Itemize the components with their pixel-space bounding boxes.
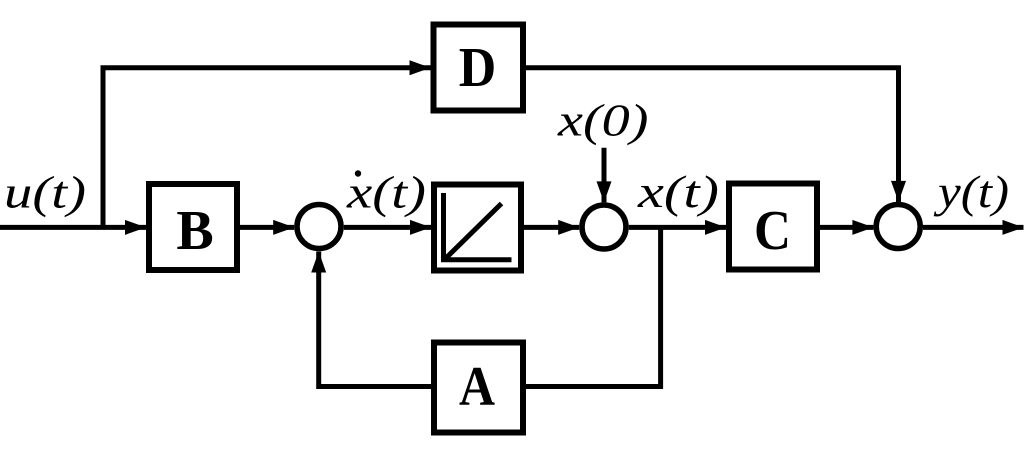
arrowhead into junction 2	[558, 220, 579, 235]
wire: junction 2 to block C	[629, 225, 726, 230]
wire: junction 1 to integrator	[344, 225, 431, 230]
arrowhead into B	[125, 220, 146, 235]
wire: branch up from input to D	[103, 68, 431, 229]
wire: integrator to summing junction 2	[524, 225, 580, 230]
arrowhead into integrator	[410, 220, 431, 235]
integrator ramp diagonal	[446, 204, 502, 259]
block A	[434, 343, 523, 433]
output summing junction	[876, 205, 920, 249]
block C	[729, 184, 817, 270]
wire: output y(t)	[923, 225, 1024, 230]
svg-text:y(t): y(t)	[934, 166, 1009, 217]
output arrowhead	[1003, 220, 1024, 235]
integrator axes: vertical	[441, 193, 446, 260]
svg-text:D: D	[459, 37, 497, 99]
block B	[149, 184, 237, 270]
wire: feedback branch down from x(t) node through A	[526, 227, 661, 386]
block D	[434, 25, 524, 111]
wire: A output left and up to junction 1	[319, 252, 431, 387]
svg-text:x(0): x(0)	[557, 95, 649, 146]
wire: input u(t) to block B	[0, 225, 146, 230]
wire: C to output junction	[820, 225, 873, 230]
arrowhead into output junction	[852, 220, 873, 235]
arrowhead into C	[705, 220, 726, 235]
dot above x	[355, 170, 361, 176]
summing junction 1	[297, 205, 341, 249]
wire: B to summing junction 1	[240, 225, 294, 230]
svg-text:A: A	[459, 356, 495, 418]
wire: x(0) down into junction 2	[602, 148, 607, 203]
integrator axes: horizontal	[441, 257, 512, 262]
arrowhead into junction 1	[273, 220, 294, 235]
svg-text:x(t): x(t)	[637, 166, 719, 217]
arrowhead down into output junction	[891, 181, 906, 202]
svg-text:C: C	[754, 200, 791, 262]
arrowhead up into junction 1	[311, 252, 326, 273]
svg-text:B: B	[176, 200, 213, 262]
summing junction 2	[582, 205, 626, 249]
arrowhead down into junction 2	[597, 181, 612, 202]
integrator block	[434, 185, 521, 271]
arrowhead into D	[410, 60, 431, 75]
wire: D to output summing junction	[526, 68, 899, 202]
svg-text:u(t): u(t)	[4, 167, 86, 218]
